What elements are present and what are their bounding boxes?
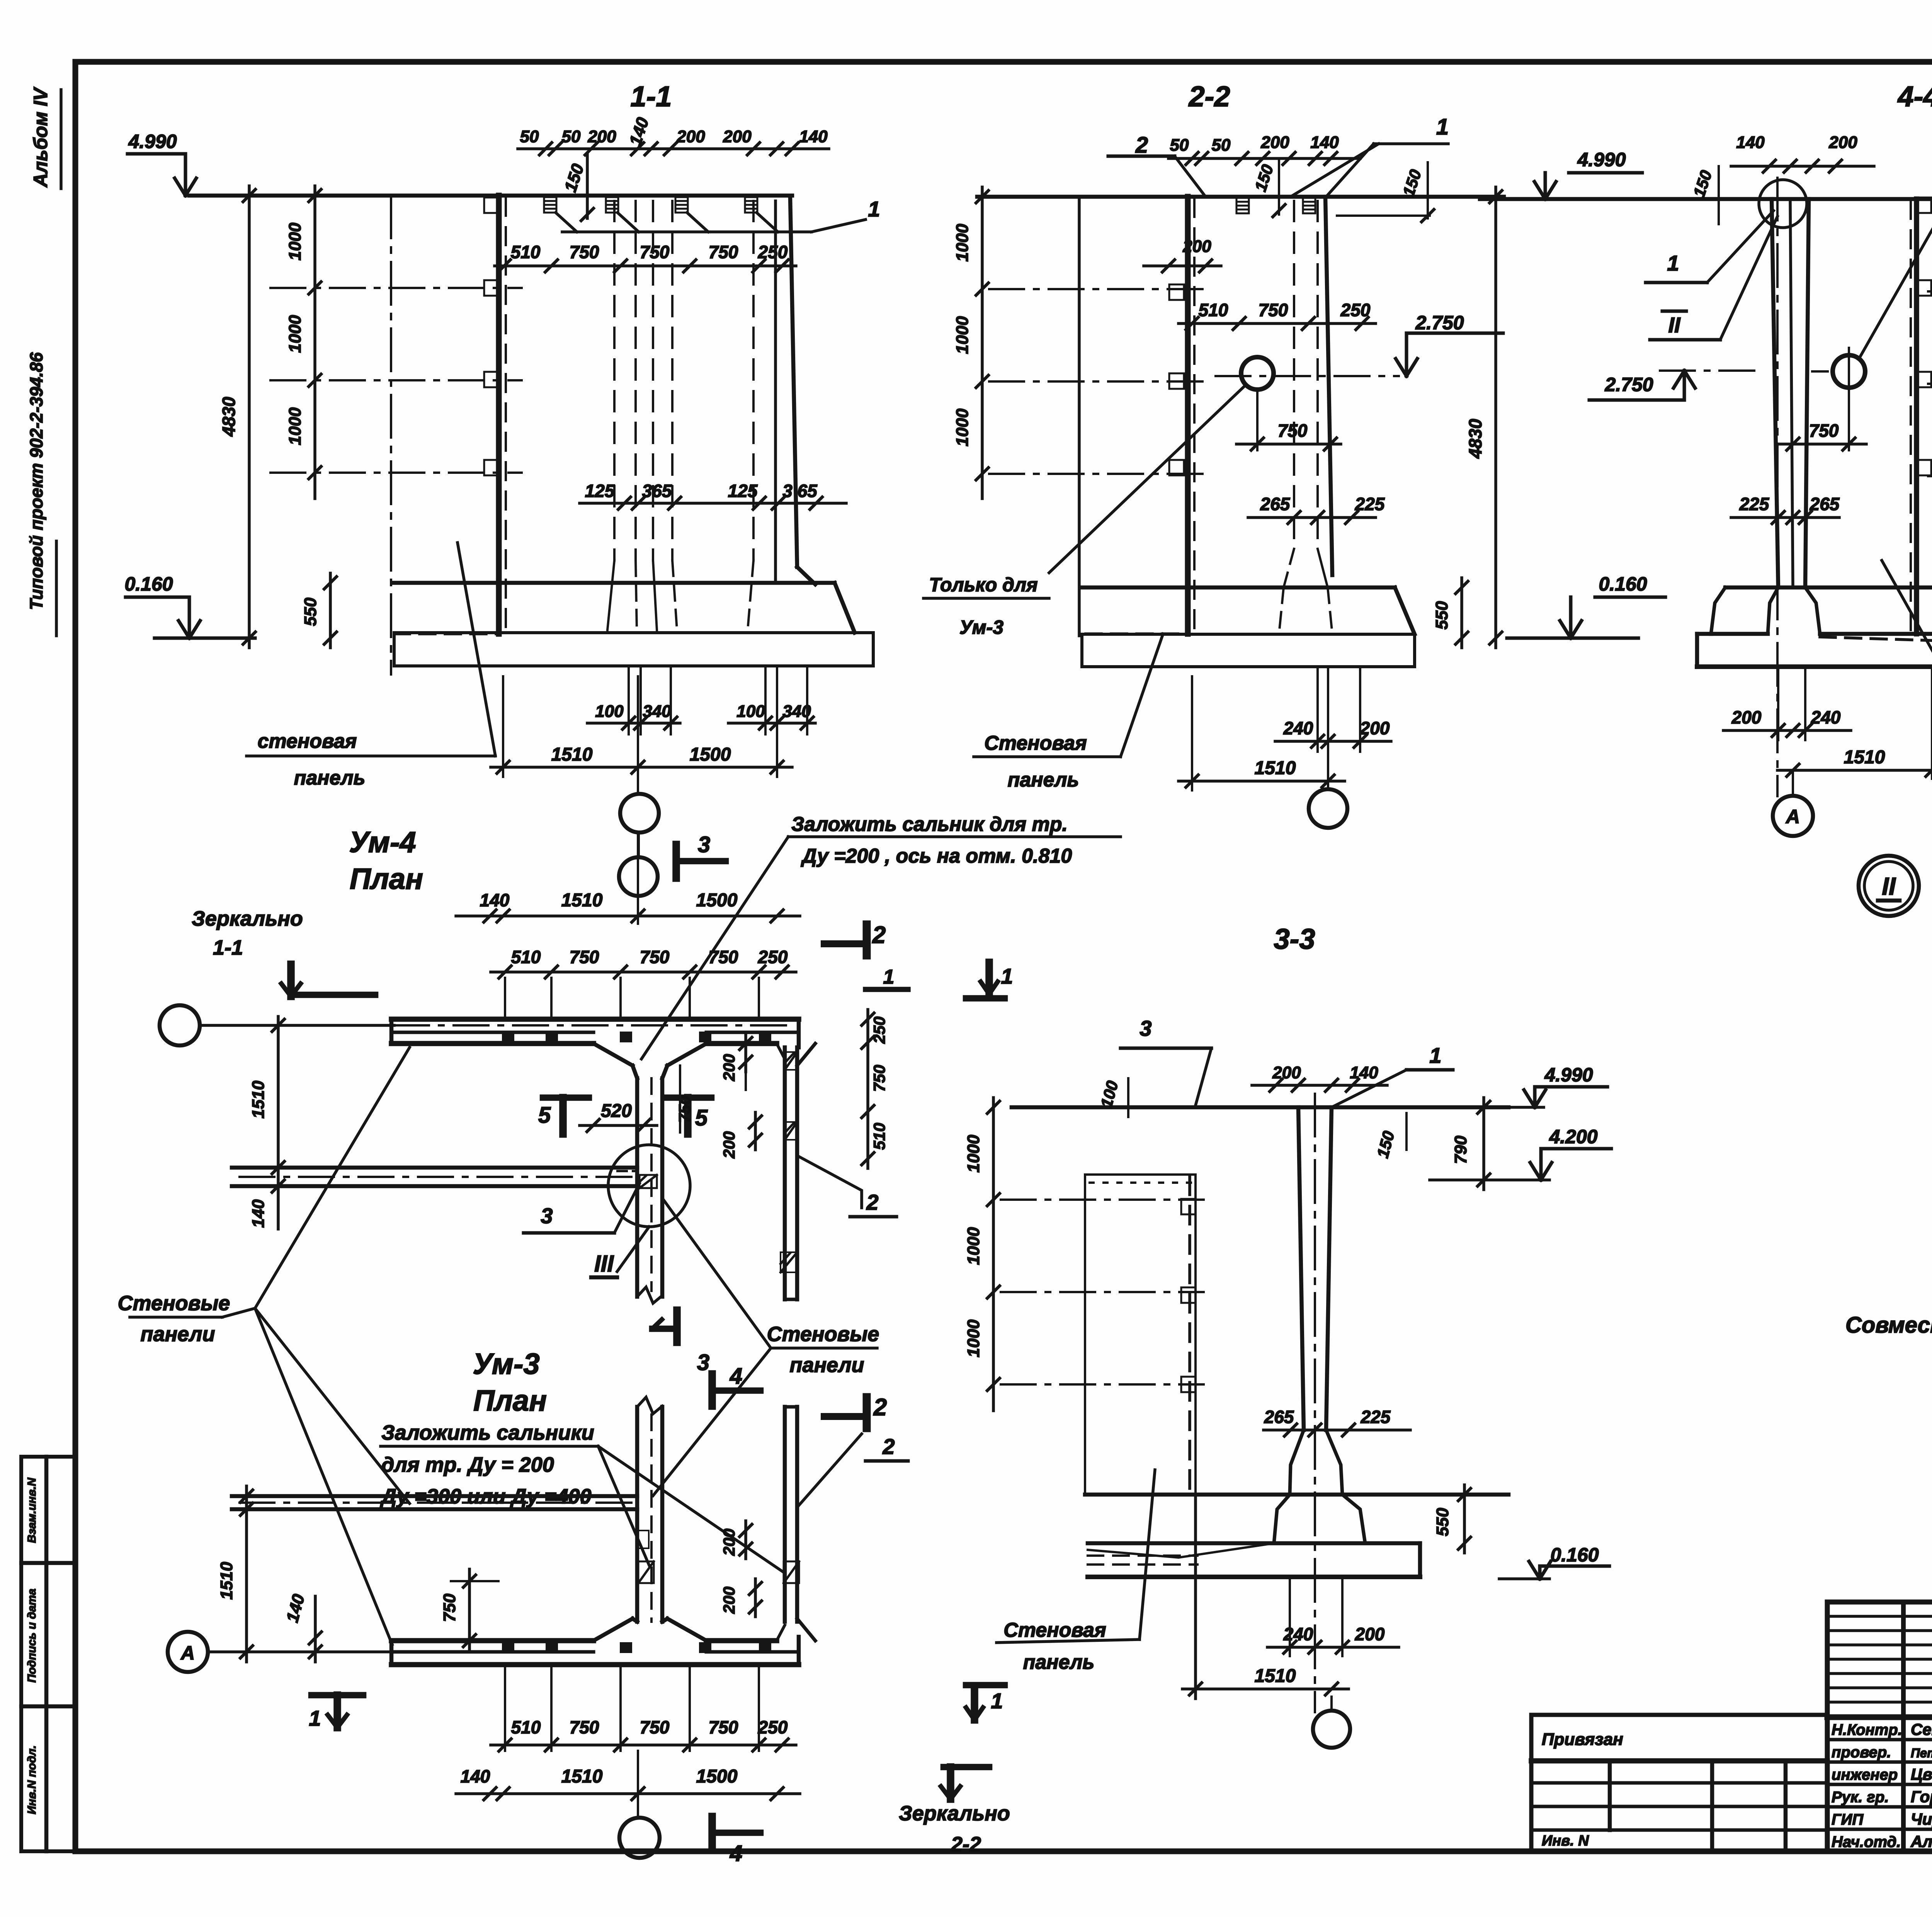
svg-text:340: 340: [643, 702, 671, 721]
svg-text:Только для: Только для: [929, 574, 1037, 596]
svg-text:520: 520: [601, 1101, 632, 1121]
svg-text:4.990: 4.990: [1544, 1064, 1593, 1086]
embeds on wall top: [544, 197, 556, 213]
title block: signature rows: [1827, 1738, 1932, 1742]
leader line to embeds, mark 1: [556, 213, 577, 232]
title block: upper thin revision rows: [1827, 1615, 1932, 1618]
svg-text:Инв.N подл.: Инв.N подл.: [26, 1745, 38, 1814]
svg-text:365: 365: [642, 481, 672, 501]
upper-left wall strip of Ум-3: [232, 1494, 637, 1498]
svg-text:1500: 1500: [690, 744, 731, 765]
svg-text:2: 2: [1135, 133, 1148, 158]
svg-text:1510: 1510: [1255, 758, 1296, 778]
svg-text:1510: 1510: [1844, 747, 1885, 768]
svg-text:125: 125: [585, 481, 615, 501]
plan bottom dim row 140/1510/1500: [456, 1792, 800, 1795]
svg-text:панели: панели: [790, 1353, 864, 1377]
bottom dim 1510 (3-3): [1182, 1687, 1349, 1691]
dimension 4830 (overall height): [248, 186, 251, 648]
svg-text:750: 750: [640, 242, 670, 262]
svg-text:2-2: 2-2: [1188, 80, 1230, 112]
cut mark 2 + Зеркально 2-2 (bottom right): [944, 1764, 989, 1771]
svg-text:750: 750: [570, 1717, 599, 1737]
funnel chamfers bottom joint: [594, 1619, 633, 1641]
svg-text:Типовой проект 902-2-394.86: Типовой проект 902-2-394.86: [26, 352, 46, 610]
axis circle A below 4-4: [1773, 796, 1813, 836]
vertical axis line: [390, 196, 392, 674]
svg-text:140: 140: [799, 127, 828, 146]
svg-text:200: 200: [676, 127, 705, 146]
detail circle on wall top: [1759, 180, 1807, 228]
svg-text:2.750: 2.750: [1415, 312, 1464, 334]
svg-text:200: 200: [1360, 718, 1390, 738]
dim chain left 1510/140 (Ум-3): [245, 1486, 248, 1662]
svg-text:5: 5: [695, 1105, 708, 1130]
right wall of plan Ум-4: [783, 1047, 787, 1299]
centre wall of plan Ум-3: [635, 1407, 639, 1622]
svg-text:1-1: 1-1: [631, 80, 672, 112]
svg-text:200: 200: [1260, 133, 1289, 152]
dim 520 with 5-5 cut marks: [580, 1124, 657, 1127]
svg-text:1000: 1000: [953, 224, 972, 262]
detail circle III on plan: [608, 1145, 690, 1227]
svg-text:Ум-3: Ум-3: [473, 1348, 539, 1381]
svg-text:790: 790: [1451, 1136, 1470, 1164]
svg-text:3: 3: [1139, 1016, 1151, 1040]
svg-text:550: 550: [301, 598, 320, 626]
cut mark 4 (bottom): [708, 1817, 716, 1849]
svg-text:1: 1: [868, 197, 880, 221]
svg-text:Подпись и дата: Подпись и дата: [26, 1588, 38, 1682]
svg-text:Цветкова: Цветкова: [1911, 1765, 1932, 1783]
svg-text:Совместно с данным см. л.: Совместно с данным см. л.л. КЖ-13,17.: [1845, 1313, 1932, 1338]
funnel chamfers of T-joint: [594, 1044, 633, 1066]
svg-text:Стеновые: Стеновые: [767, 1323, 879, 1346]
dim 550 right: [1460, 578, 1463, 648]
svg-text:Альтшулер: Альтшулер: [1910, 1832, 1932, 1851]
svg-text:1000: 1000: [964, 1135, 983, 1173]
svg-text:200: 200: [720, 1529, 738, 1556]
svg-text:4-4: 4-4: [1897, 80, 1932, 112]
svg-text:5: 5: [538, 1103, 551, 1128]
top dimension row 50/50/200/140/200/200/140: [518, 147, 829, 150]
left lower wall strip of Ум-4: [232, 1166, 637, 1170]
axis circle below section 1-1: [620, 794, 659, 833]
svg-text:Заложить сальник для тр.: Заложить сальник для тр.: [791, 813, 1068, 836]
svg-text:1: 1: [883, 966, 895, 988]
svg-text:240: 240: [1283, 718, 1313, 738]
dim 265/225: [1248, 516, 1376, 519]
svg-text:1: 1: [309, 1706, 321, 1730]
svg-text:панель: панель: [1023, 1651, 1095, 1674]
hole (сальник) circle 2-2: [1241, 357, 1274, 390]
hatch marks on right wall: [785, 1052, 797, 1070]
svg-text:инженер: инженер: [1832, 1766, 1898, 1783]
svg-text:750: 750: [440, 1594, 459, 1622]
bottom dims 200/240 (4-4): [1723, 729, 1851, 732]
svg-text:200: 200: [723, 127, 752, 146]
dimension 550: [329, 573, 332, 648]
svg-text:Стеновая: Стеновая: [984, 732, 1087, 754]
plan top dim row 510/750/750/750/250: [491, 970, 796, 974]
svg-text:Зеркально: Зеркально: [192, 907, 303, 930]
svg-text:Инв. N: Инв. N: [1542, 1833, 1589, 1849]
svg-text:0.160: 0.160: [1599, 573, 1647, 595]
svg-text:4830: 4830: [219, 397, 239, 437]
svg-text:200: 200: [720, 1131, 738, 1159]
dim 750 (4-4): [1777, 443, 1866, 446]
svg-text:1510: 1510: [1255, 1666, 1296, 1686]
svg-text:панели: панели: [141, 1323, 215, 1346]
wall taper curves at footing: [607, 560, 614, 630]
bottom dim 1510 (4-4): [1777, 769, 1932, 772]
svg-text:750: 750: [709, 1717, 738, 1737]
svg-text:225: 225: [1739, 494, 1770, 514]
svg-text:750: 750: [570, 242, 599, 262]
svg-text:3-3: 3-3: [1274, 923, 1315, 955]
cut mark 1 (bottom left of 3-3): [971, 1688, 978, 1720]
svg-text:550: 550: [1433, 1508, 1452, 1536]
dim 550 (3-3): [1463, 1485, 1466, 1553]
svg-text:Н.Контр.: Н.Контр.: [1832, 1721, 1902, 1738]
svg-text:50: 50: [520, 127, 539, 146]
bottom dims 240/200: [1275, 740, 1391, 743]
dim 4830 right: [1494, 187, 1497, 648]
svg-text:II: II: [1882, 872, 1896, 900]
dim chain 1000x3 left: [981, 187, 984, 499]
svg-text:1000: 1000: [953, 409, 972, 446]
svg-text:Альбом IV: Альбом IV: [30, 87, 51, 188]
break at wall top: [637, 1397, 662, 1414]
wall panel edge (стеновая панель): [496, 196, 502, 634]
svg-text:140: 140: [480, 890, 510, 910]
svg-text:125: 125: [728, 481, 758, 501]
svg-text:2: 2: [872, 922, 886, 948]
svg-text:3: 3: [698, 832, 710, 857]
plan bottom dim row 510/750/750/750/250: [491, 1743, 796, 1747]
bottom dim 1510: [1179, 780, 1345, 783]
bottom wall strip of Ум-3: [391, 1638, 594, 1643]
svg-text:Ду =200 , ось на отм. 0.810: Ду =200 , ось на отм. 0.810: [801, 845, 1072, 867]
svg-text:140: 140: [1310, 133, 1339, 152]
svg-text:265: 265: [1260, 494, 1291, 514]
axis circle below 3-3: [1313, 1711, 1350, 1748]
svg-text:Гордуз: Гордуз: [1911, 1788, 1932, 1806]
title block: signature table columns: [1901, 1602, 1906, 1851]
svg-text:1000: 1000: [286, 223, 304, 260]
plan Ум-4 top wall strip: [391, 1016, 799, 1022]
svg-text:Взам.инв.N: Взам.инв.N: [26, 1477, 38, 1543]
cut mark 1 (right of plan): [866, 987, 908, 992]
svg-text:750: 750: [709, 947, 738, 967]
wall panel 2-2: [1185, 197, 1191, 634]
svg-text:750: 750: [870, 1065, 888, 1092]
footing haunch slope: [835, 583, 855, 633]
wall right edge: [790, 197, 797, 567]
svg-text:провер.: провер.: [1832, 1744, 1891, 1761]
svg-text:2-2: 2-2: [951, 1833, 981, 1856]
svg-text:1500: 1500: [696, 1766, 738, 1787]
svg-text:200: 200: [1828, 133, 1857, 152]
svg-text:2: 2: [866, 1190, 878, 1214]
svg-text:1000: 1000: [286, 407, 304, 445]
svg-text:750: 750: [675, 1096, 694, 1123]
footing 3-3: [1085, 1493, 1509, 1497]
svg-text:140: 140: [1736, 133, 1765, 152]
svg-text:ГИП: ГИП: [1832, 1811, 1864, 1828]
top dims 50/50/200/140: [1168, 157, 1360, 160]
dimension chain 1000x3: [313, 186, 316, 499]
top line 3-3: [1012, 1105, 1509, 1110]
svg-text:3 65: 3 65: [782, 481, 818, 501]
foundation slab: [394, 633, 873, 666]
svg-text:3: 3: [697, 1350, 709, 1375]
cut mark 2 (top right of plan): [863, 924, 871, 955]
svg-text:панель: панель: [294, 767, 366, 789]
svg-text:550: 550: [1432, 601, 1451, 630]
svg-text:240: 240: [1811, 707, 1841, 727]
svg-text:200: 200: [720, 1587, 738, 1614]
wall face line: [774, 201, 777, 580]
svg-text:4.990: 4.990: [1577, 149, 1626, 170]
svg-text:4.200: 4.200: [1549, 1126, 1597, 1147]
right wall of plan Ум-3: [783, 1407, 787, 1622]
elevation 2.750: [1216, 375, 1399, 377]
svg-text:100: 100: [595, 702, 624, 721]
svg-text:510: 510: [511, 947, 541, 967]
dim 750 (hole): [1256, 390, 1259, 450]
svg-text:750: 750: [570, 947, 599, 967]
joint detail in circle: [639, 1175, 657, 1188]
bottom dims 240/200 (3-3): [1267, 1646, 1399, 1649]
leaders from right label: [662, 1198, 771, 1348]
wall top line 2-2: [977, 195, 1504, 199]
svg-text:1510: 1510: [551, 744, 593, 765]
svg-text:200: 200: [720, 1054, 738, 1081]
стеновая панель line (right side): [1914, 199, 1919, 634]
svg-text:2: 2: [873, 1394, 887, 1421]
svg-text:1500: 1500: [696, 890, 738, 911]
break at wall end: [637, 1287, 662, 1303]
svg-text:50: 50: [562, 127, 581, 146]
dim chain 1000x3 (3-3): [992, 1098, 995, 1411]
svg-text:250: 250: [1340, 300, 1371, 320]
hole circle 4-4: [1833, 355, 1865, 388]
svg-text:План: План: [350, 863, 423, 896]
title block outer box: [1827, 1602, 1932, 1851]
wall panel (3-3, left): [1085, 1175, 1196, 1495]
svg-text:1510: 1510: [217, 1562, 236, 1600]
horizontal axis ticks: [270, 287, 522, 289]
svg-text:А: А: [1785, 806, 1800, 827]
footing 4-4: [1725, 586, 1932, 590]
embeds on top: [1236, 198, 1249, 213]
level line 0.160: [155, 637, 255, 640]
dim 140 (strip): [314, 1596, 317, 1662]
svg-text:4: 4: [730, 1841, 742, 1866]
svg-text:1: 1: [991, 1689, 1003, 1713]
dim 265/225 (3-3): [1264, 1428, 1410, 1432]
svg-text:750: 750: [640, 947, 670, 967]
svg-text:Петропавловский: Петропавловский: [1911, 1746, 1932, 1760]
svg-text:Стеновые: Стеновые: [118, 1292, 230, 1315]
bottom dimension rows 100/340: [587, 722, 680, 725]
wall faces (3-3): [1298, 1107, 1304, 1430]
plan top dim row 140/1510/1500: [456, 914, 800, 918]
svg-text:750: 750: [709, 242, 738, 262]
svg-text:1000: 1000: [964, 1227, 983, 1265]
svg-text:250: 250: [758, 947, 788, 967]
svg-text:1000: 1000: [953, 316, 972, 354]
footing top line: [394, 581, 835, 585]
svg-text:3: 3: [541, 1204, 553, 1228]
svg-text:250: 250: [758, 242, 788, 262]
axis circle below Ум-3: [619, 1818, 660, 1858]
svg-text:Зеркально: Зеркально: [899, 1802, 1010, 1825]
svg-text:Нач.отд.: Нач.отд.: [1832, 1834, 1901, 1851]
svg-text:225: 225: [1355, 494, 1385, 514]
svg-text:Ум-4: Ум-4: [349, 826, 416, 859]
svg-text:510: 510: [511, 1717, 541, 1737]
svg-text:200: 200: [1272, 1063, 1301, 1082]
cut mark 3 (between plans): [673, 1310, 681, 1342]
top dims 200/140 (3-3): [1252, 1084, 1387, 1087]
svg-text:Чирков: Чирков: [1911, 1810, 1932, 1828]
panel tabs: [484, 197, 499, 213]
svg-text:План: План: [473, 1384, 547, 1417]
svg-text:Стеновая: Стеновая: [1003, 1619, 1106, 1641]
svg-text:1510: 1510: [561, 890, 603, 911]
svg-text:1510: 1510: [249, 1081, 268, 1119]
axis circle 2 below section 1-1: [619, 857, 658, 896]
bottom dimension 1510/1500: [491, 766, 792, 769]
left margin stamp table: [21, 1457, 75, 1851]
svg-text:2.750: 2.750: [1604, 374, 1653, 395]
svg-text:200: 200: [1355, 1624, 1385, 1644]
wall top line at level 4.990: [189, 194, 792, 198]
svg-text:Семенова: Семенова: [1911, 1720, 1932, 1738]
svg-text:стеновая: стеновая: [258, 730, 357, 752]
wall axis 4-4: [1776, 178, 1779, 796]
svg-text:240: 240: [1283, 1624, 1313, 1644]
svg-text:III: III: [594, 1251, 614, 1277]
right side dim chain 250/750/510: [866, 1010, 869, 1168]
svg-text:0.160: 0.160: [1550, 1544, 1599, 1566]
wall top line 4-4: [1480, 197, 1932, 201]
svg-text:750: 750: [1278, 421, 1308, 441]
svg-text:1-1: 1-1: [213, 936, 243, 959]
cut arrow for Зеркально 1-1: [287, 964, 295, 996]
svg-text:265: 265: [1264, 1407, 1294, 1427]
svg-text:140: 140: [461, 1766, 490, 1786]
svg-text:Заложить сальники: Заложить сальники: [381, 1421, 594, 1444]
dimension row 510/750/750/750/250: [495, 264, 796, 267]
footing 2-2: [1082, 586, 1395, 590]
svg-text:200: 200: [1731, 707, 1762, 727]
hidden wall face lines (dashed): [613, 201, 616, 560]
dimension row 125/365/125/365: [580, 502, 846, 505]
corner chamfer right: [797, 1044, 815, 1066]
cut mark 2 pair (right, Ум-3): [863, 1397, 871, 1428]
centre wall of plan Ум-4: [635, 1078, 639, 1297]
dim row 510/750/250: [1179, 322, 1376, 325]
svg-text:250: 250: [758, 1717, 788, 1737]
svg-text:50: 50: [1212, 136, 1231, 155]
wall right edge 2-2: [1325, 197, 1332, 575]
panel bottom dashed: [394, 632, 499, 635]
svg-text:750: 750: [1259, 300, 1288, 320]
axis circle below 2-2: [1309, 789, 1347, 828]
svg-text:510: 510: [870, 1123, 888, 1150]
svg-text:140: 140: [1350, 1063, 1378, 1082]
svg-text:510: 510: [511, 242, 541, 262]
axis vertical line 2-2: [1078, 197, 1081, 636]
cut mark 1 top-left of 3-3: [985, 962, 993, 994]
cut mark 3: [672, 844, 680, 878]
svg-text:4830: 4830: [1465, 419, 1485, 459]
dim chain left 1510/140: [277, 1016, 280, 1229]
svg-text:1: 1: [1429, 1043, 1441, 1067]
svg-text:510: 510: [1199, 300, 1228, 320]
dim 225/265: [1731, 516, 1839, 519]
wall faces 2-2: [1293, 201, 1295, 549]
svg-text:1000: 1000: [964, 1319, 983, 1357]
svg-text:II: II: [1668, 313, 1681, 337]
svg-text:100: 100: [736, 702, 765, 721]
svg-text:панель: панель: [1008, 769, 1079, 791]
cut mark 4 (top): [708, 1374, 716, 1406]
svg-text:Ум-3: Ум-3: [959, 616, 1003, 638]
leader mark 2 (right wall lower): [797, 1156, 862, 1208]
svg-text:225: 225: [1361, 1407, 1391, 1427]
axis circle (plan Ум-4): [160, 1005, 200, 1045]
top dims 140/200: [1731, 165, 1874, 168]
dim 750 rotated (Ум-3 left): [468, 1569, 471, 1650]
leader fan from label: [222, 1308, 255, 1317]
svg-text:2: 2: [882, 1434, 895, 1459]
leader to plan: [641, 837, 788, 1059]
svg-text:750: 750: [1809, 421, 1839, 441]
wall lines 4-4: [1772, 199, 1778, 587]
svg-text:4.990: 4.990: [128, 131, 177, 152]
svg-text:265: 265: [1810, 494, 1840, 514]
svg-text:А: А: [180, 1642, 195, 1664]
hatch on centre wall (Ум-3): [637, 1531, 649, 1548]
svg-text:1: 1: [1001, 964, 1013, 988]
svg-text:1000: 1000: [286, 315, 304, 353]
svg-text:1510: 1510: [561, 1766, 603, 1787]
detail circle II: [1859, 856, 1919, 916]
svg-text:250: 250: [870, 1016, 888, 1044]
svg-text:Привязан: Привязан: [1542, 1730, 1623, 1749]
title block: left attachment table: [1531, 1715, 1827, 1851]
svg-text:0.160: 0.160: [124, 573, 173, 595]
svg-text:Рук. гр.: Рук. гр.: [1832, 1789, 1889, 1806]
embeds in bottom strip: [502, 1643, 514, 1653]
svg-text:750: 750: [640, 1717, 670, 1737]
svg-text:140: 140: [249, 1199, 268, 1228]
leader to label: [1049, 385, 1246, 573]
dim 790: [1482, 1098, 1485, 1190]
svg-text:50: 50: [1170, 136, 1189, 155]
svg-text:для тр. Ду = 200: для тр. Ду = 200: [381, 1453, 554, 1476]
svg-text:1: 1: [1667, 251, 1679, 275]
axis circle А (plan Ум-3): [168, 1632, 208, 1672]
embeds in top strip: [502, 1032, 514, 1042]
svg-text:1: 1: [1436, 114, 1449, 140]
cut mark 1 bottom left: [311, 1692, 363, 1699]
svg-text:200: 200: [587, 127, 616, 146]
